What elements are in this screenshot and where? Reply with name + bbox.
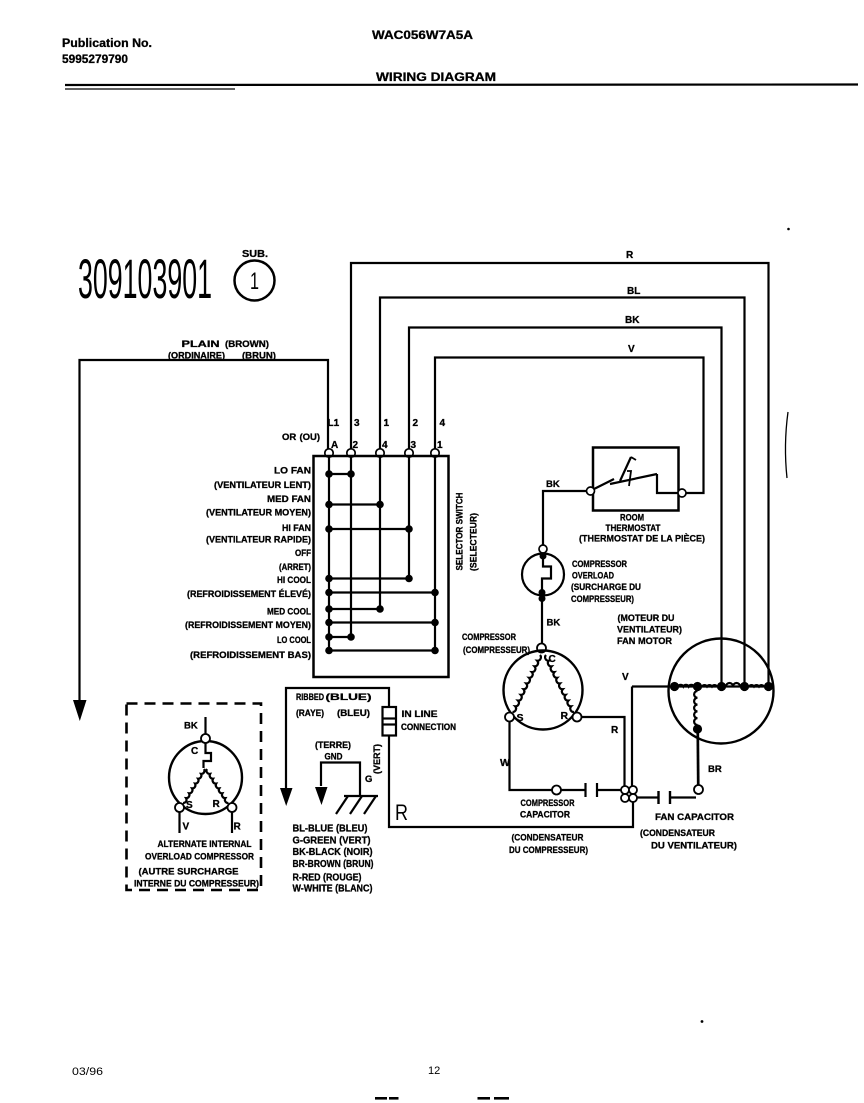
svg-text:(SURCHARGE DU: (SURCHARGE DU xyxy=(571,582,641,592)
svg-text:S: S xyxy=(517,712,524,724)
svg-text:W-WHITE (BLANC): W-WHITE (BLANC) xyxy=(293,884,373,895)
svg-text:COMPRESSEUR): COMPRESSEUR) xyxy=(571,594,634,604)
svg-text:COMPRESSOR: COMPRESSOR xyxy=(462,632,516,642)
svg-text:3: 3 xyxy=(354,418,360,429)
svg-text:C: C xyxy=(191,746,198,757)
svg-text:R: R xyxy=(395,800,408,825)
svg-text:(VENTILATEUR MOYEN): (VENTILATEUR MOYEN) xyxy=(206,508,311,518)
svg-text:OR: OR xyxy=(282,432,296,443)
svg-text:HI COOL: HI COOL xyxy=(277,575,311,585)
svg-text:4: 4 xyxy=(382,440,388,451)
svg-text:ALTERNATE INTERNAL: ALTERNATE INTERNAL xyxy=(158,839,252,849)
svg-text:GND: GND xyxy=(325,752,343,762)
svg-text:BK: BK xyxy=(547,618,561,629)
svg-text:12: 12 xyxy=(428,1065,440,1077)
svg-text:(REFROIDISSEMENT MOYEN): (REFROIDISSEMENT MOYEN) xyxy=(185,620,311,630)
svg-text:CAPACITOR: CAPACITOR xyxy=(520,810,570,820)
svg-text:VENTILATEUR): VENTILATEUR) xyxy=(617,625,682,635)
svg-text:A: A xyxy=(331,440,338,451)
svg-text:PLAIN: PLAIN xyxy=(182,339,220,349)
svg-text:DU VENTILATEUR): DU VENTILATEUR) xyxy=(651,841,737,851)
svg-text:WAC056W7A5A: WAC056W7A5A xyxy=(372,28,473,42)
svg-text:R: R xyxy=(626,250,634,261)
svg-text:R: R xyxy=(611,725,619,736)
svg-text:(CONDENSATEUR: (CONDENSATEUR xyxy=(512,833,584,843)
svg-text:V: V xyxy=(622,672,629,683)
svg-text:03/96: 03/96 xyxy=(72,1066,103,1078)
svg-text:(RAYE): (RAYE) xyxy=(296,708,324,718)
svg-text:Publication No.: Publication No. xyxy=(62,36,152,50)
svg-text:OFF: OFF xyxy=(295,548,311,558)
svg-text:(ARRET): (ARRET) xyxy=(279,562,311,572)
svg-text:BK: BK xyxy=(546,479,560,490)
svg-text:(VERT): (VERT) xyxy=(372,744,382,774)
svg-text:LO COOL: LO COOL xyxy=(277,635,311,645)
svg-text:CONNECTION: CONNECTION xyxy=(401,722,456,732)
svg-text:(CONDENSATEUR: (CONDENSATEUR xyxy=(640,828,715,838)
svg-text:BK: BK xyxy=(625,315,640,326)
svg-text:IN LINE: IN LINE xyxy=(402,709,438,719)
svg-text:1: 1 xyxy=(250,268,259,295)
svg-text:DU COMPRESSEUR): DU COMPRESSEUR) xyxy=(509,845,588,855)
svg-text:(THERMOSTAT DE LA PIÈCE): (THERMOSTAT DE LA PIÈCE) xyxy=(579,534,705,544)
svg-text:V: V xyxy=(183,822,190,833)
svg-text:C: C xyxy=(549,654,556,665)
svg-text:HI FAN: HI FAN xyxy=(282,523,311,533)
svg-text:(REFROIDISSEMENT ÉLEVÉ): (REFROIDISSEMENT ÉLEVÉ) xyxy=(187,589,311,599)
svg-text:BL: BL xyxy=(627,286,640,297)
svg-text:BR: BR xyxy=(708,764,722,775)
svg-text:FAN MOTOR: FAN MOTOR xyxy=(617,636,672,646)
svg-text:1: 1 xyxy=(437,440,443,451)
svg-text:(BRUN): (BRUN) xyxy=(242,351,276,361)
svg-text:(BROWN): (BROWN) xyxy=(225,339,269,349)
svg-text:R: R xyxy=(234,822,242,833)
svg-text:W: W xyxy=(500,757,510,769)
svg-text:(MOTEUR DU: (MOTEUR DU xyxy=(618,613,675,623)
svg-text:(VENTILATEUR RAPIDE): (VENTILATEUR RAPIDE) xyxy=(206,535,311,545)
svg-text:COMPRESSOR: COMPRESSOR xyxy=(572,559,627,569)
svg-text:R: R xyxy=(213,799,221,810)
svg-text:MED COOL: MED COOL xyxy=(267,607,311,617)
svg-text:(TERRE): (TERRE) xyxy=(315,740,351,750)
svg-text:V: V xyxy=(628,344,635,355)
svg-text:SUB.: SUB. xyxy=(242,249,268,260)
svg-text:(BLUE): (BLUE) xyxy=(326,692,372,702)
svg-text:FAN CAPACITOR: FAN CAPACITOR xyxy=(655,812,734,822)
svg-text:(REFROIDISSEMENT BAS): (REFROIDISSEMENT BAS) xyxy=(190,650,311,660)
svg-text:G: G xyxy=(365,774,372,785)
svg-text:LO FAN: LO FAN xyxy=(274,466,311,476)
svg-text:MED FAN: MED FAN xyxy=(267,494,311,504)
svg-text:L1: L1 xyxy=(328,418,340,429)
svg-text:5995279790: 5995279790 xyxy=(62,52,128,66)
svg-text:R-RED (ROUGE): R-RED (ROUGE) xyxy=(293,873,362,884)
svg-text:(SELECTEUR): (SELECTEUR) xyxy=(469,513,480,571)
svg-text:4: 4 xyxy=(440,418,446,429)
svg-text:S: S xyxy=(186,800,193,811)
svg-text:(ORDINAIRE): (ORDINAIRE) xyxy=(168,351,225,361)
svg-text:2: 2 xyxy=(413,418,419,429)
svg-text:OVERLOAD: OVERLOAD xyxy=(572,571,614,581)
svg-text:BR-BROWN (BRUN): BR-BROWN (BRUN) xyxy=(293,859,374,870)
svg-text:3: 3 xyxy=(411,440,417,451)
svg-text:1: 1 xyxy=(384,418,390,429)
svg-text:BK-BLACK (NOIR): BK-BLACK (NOIR) xyxy=(293,847,373,858)
svg-text:COMPRESSOR: COMPRESSOR xyxy=(521,798,575,808)
svg-text:INTERNE DU COMPRESSEUR): INTERNE DU COMPRESSEUR) xyxy=(134,879,259,889)
svg-text:OVERLOAD COMPRESSOR: OVERLOAD COMPRESSOR xyxy=(145,852,254,862)
svg-text:BL-BLUE (BLEU): BL-BLUE (BLEU) xyxy=(293,824,368,835)
svg-text:309103901: 309103901 xyxy=(78,247,212,310)
svg-text:RIBBED: RIBBED xyxy=(296,692,324,702)
svg-text:(VENTILATEUR LENT): (VENTILATEUR LENT) xyxy=(214,480,311,490)
svg-text:(BLEU): (BLEU) xyxy=(337,708,370,718)
svg-text:WIRING DIAGRAM: WIRING DIAGRAM xyxy=(376,70,496,84)
svg-text:R: R xyxy=(561,710,569,722)
svg-text:(AUTRE SURCHARGE: (AUTRE SURCHARGE xyxy=(139,867,239,877)
svg-text:THERMOSTAT: THERMOSTAT xyxy=(606,523,661,533)
svg-text:ROOM: ROOM xyxy=(620,513,644,523)
svg-text:G-GREEN (VERT): G-GREEN (VERT) xyxy=(293,836,371,847)
svg-text:(OU): (OU) xyxy=(300,432,321,443)
svg-text:SELECTOR SWITCH: SELECTOR SWITCH xyxy=(455,492,466,570)
svg-text:(COMPRESSEUR): (COMPRESSEUR) xyxy=(463,645,530,655)
svg-text:BK: BK xyxy=(184,721,198,732)
svg-text:2: 2 xyxy=(353,440,359,451)
